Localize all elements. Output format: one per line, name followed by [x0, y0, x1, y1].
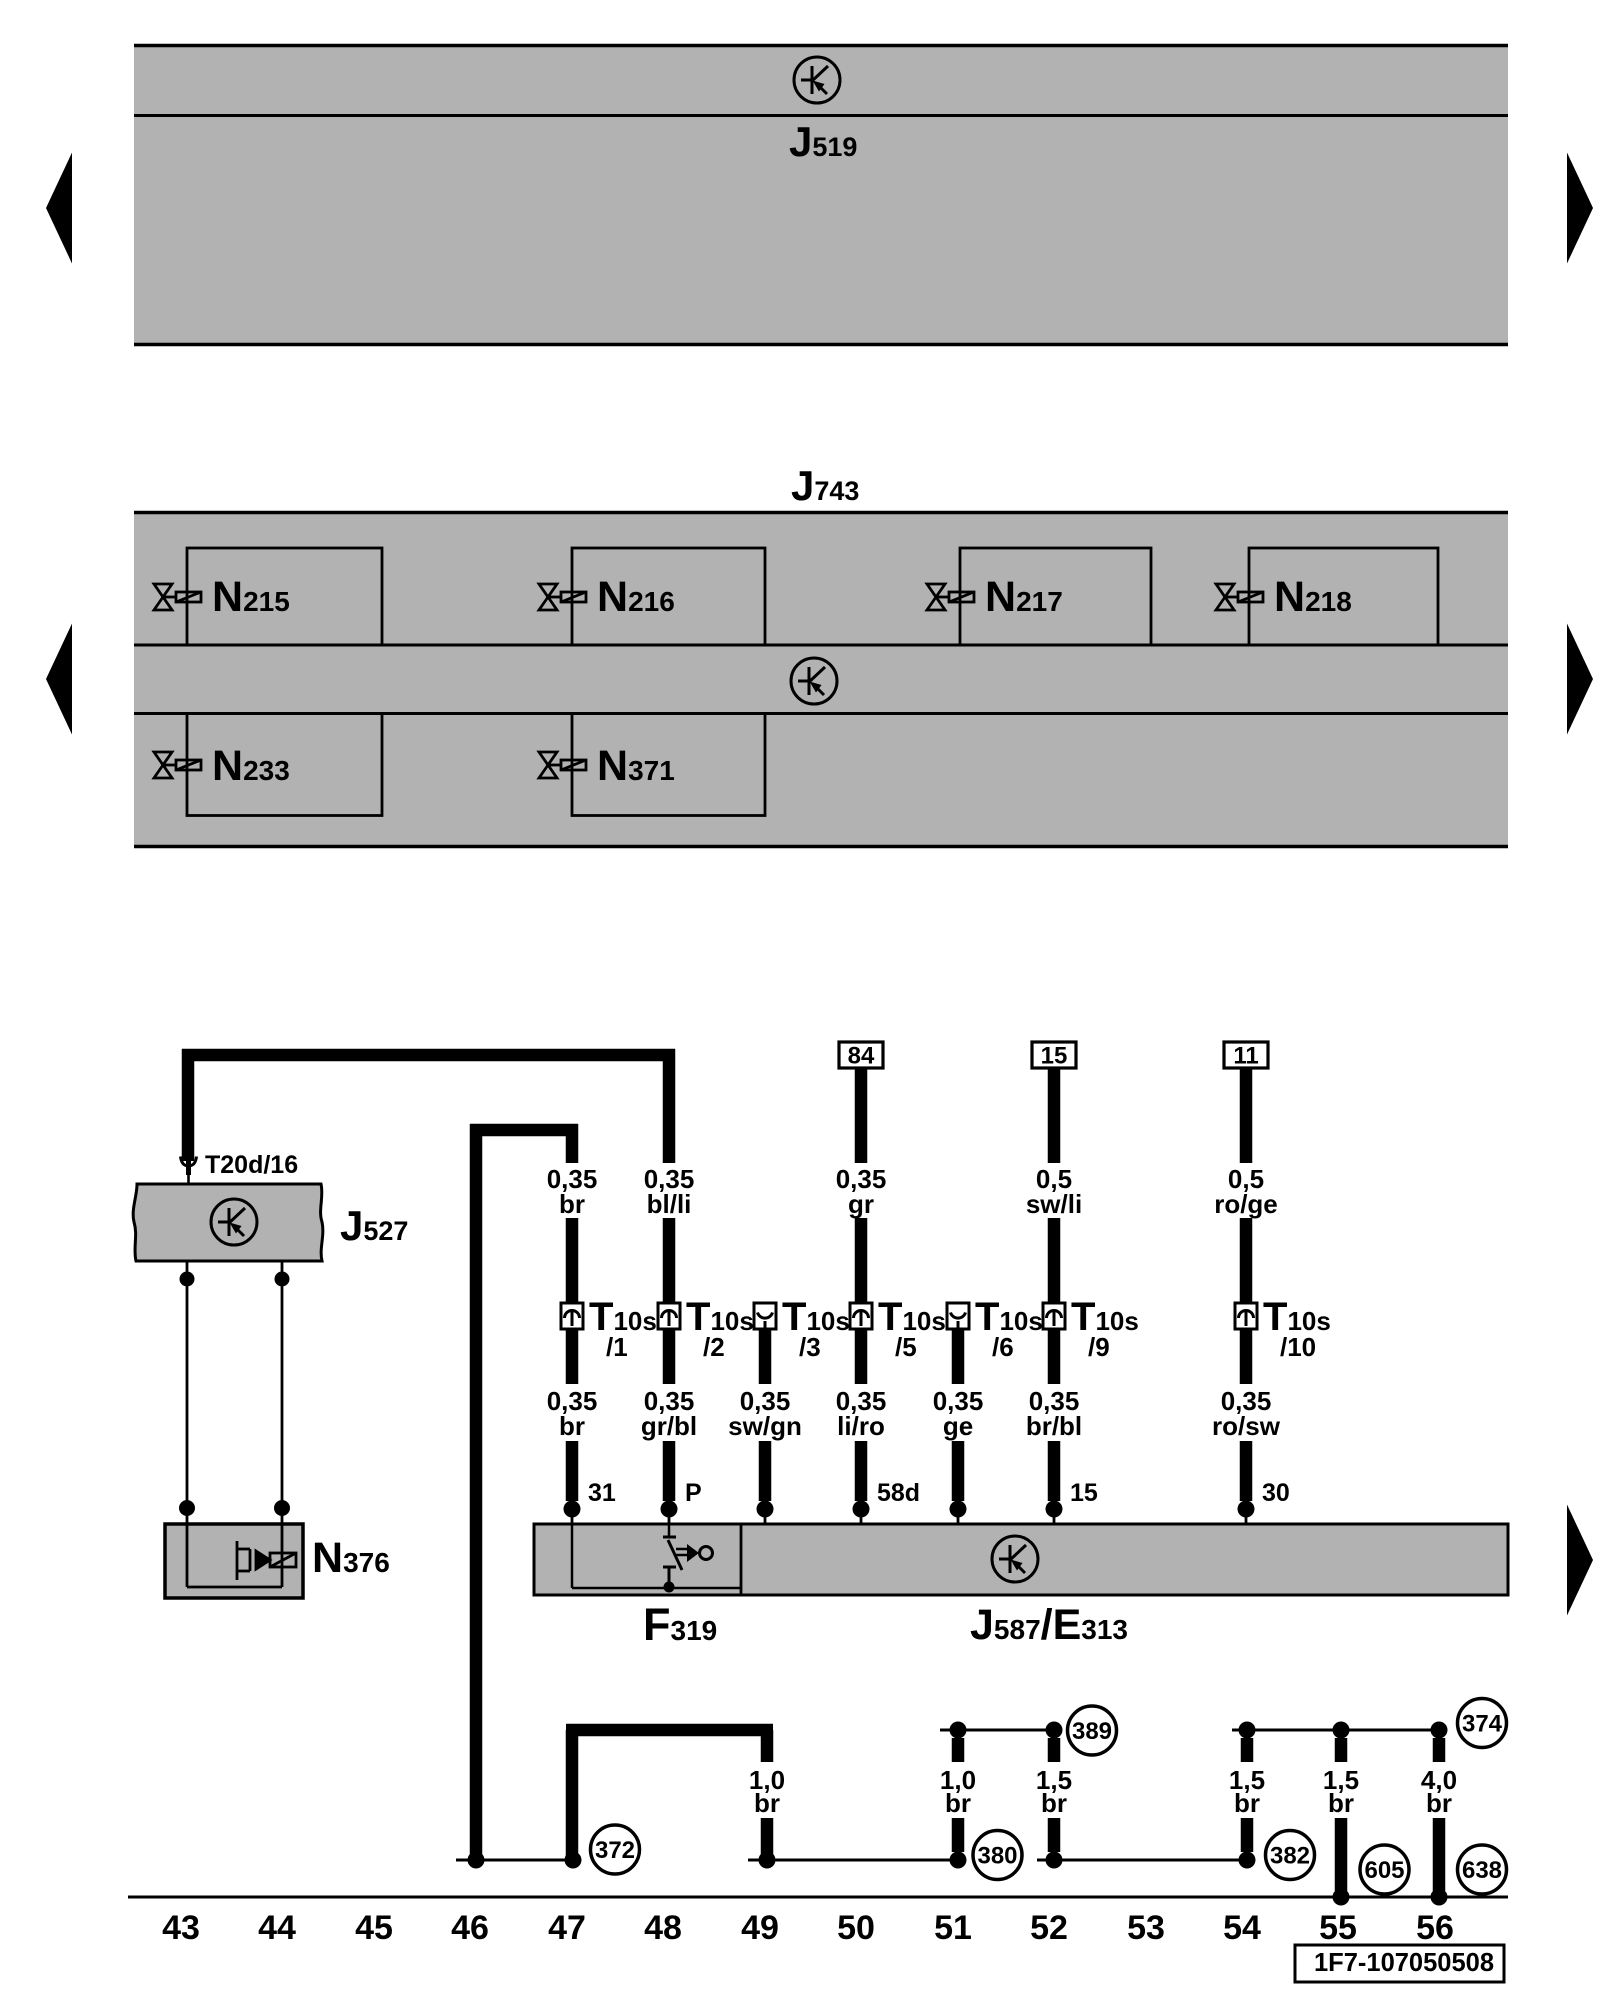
- ground wire track 51 upper segment: [952, 1738, 965, 1762]
- svg-text:gr: gr: [848, 1189, 874, 1219]
- terminal 11 box: [1224, 1042, 1268, 1068]
- terminal dot at x=669: [661, 1501, 678, 1518]
- wire ge below connector T10s/6: [952, 1318, 965, 1384]
- svg-text:/5: /5: [895, 1332, 917, 1362]
- ground wire track 52 upper segment: [1048, 1738, 1061, 1762]
- switch F319 contacts: [663, 1537, 713, 1585]
- connector T20d/16 socket symbol: [181, 1157, 197, 1187]
- terminal pin stub at x=669: [668, 1501, 671, 1524]
- wire br into connector T10s/1: [566, 1218, 579, 1384]
- internal connection symbol in J587/E313: [992, 1536, 1038, 1582]
- terminal dot at x=572: [564, 1501, 581, 1518]
- terminal pin stub at x=1054: [1053, 1501, 1056, 1524]
- svg-text:48: 48: [644, 1909, 682, 1947]
- wire below terminal 84: [855, 1068, 868, 1163]
- wire sw/li into connector T10s/9: [1048, 1218, 1061, 1384]
- wire into J587/E313 at x=1054: [1048, 1441, 1061, 1501]
- junction dot right above N376: [274, 1500, 290, 1516]
- svg-text:F319: F319: [643, 1599, 717, 1650]
- switch F319 lower junction dot: [664, 1582, 675, 1593]
- ground junction dot track 46: [468, 1852, 485, 1869]
- svg-text:84: 84: [848, 1043, 875, 1070]
- svg-text:br: br: [945, 1788, 971, 1818]
- svg-text:50: 50: [837, 1909, 875, 1947]
- svg-text:55: 55: [1319, 1909, 1357, 1947]
- internal connection symbol in J743: [791, 658, 837, 704]
- junction dot left below J527: [180, 1272, 195, 1287]
- solenoid valve N215 box: [187, 548, 382, 645]
- ground bridge wire left leg (track 47): [566, 1730, 579, 1860]
- earth rail dot track 56: [1431, 1889, 1448, 1906]
- wire into J587/E313 at x=958: [952, 1441, 965, 1501]
- svg-text:J743: J743: [791, 462, 859, 509]
- svg-text:sw/gn: sw/gn: [728, 1411, 802, 1441]
- wire bl/li upper segment: [663, 1049, 676, 1163]
- svg-text:605: 605: [1364, 1857, 1404, 1884]
- terminal 15 box: [1032, 1042, 1076, 1068]
- svg-text:/6: /6: [992, 1332, 1014, 1362]
- svg-text:638: 638: [1462, 1857, 1502, 1884]
- internal connection symbol in J527: [211, 1199, 257, 1245]
- svg-text:J527: J527: [340, 1202, 408, 1249]
- ground rail segment D: [940, 1729, 1054, 1732]
- ground junction dot track 56 upper: [1431, 1722, 1448, 1739]
- wire into J587/E313 at x=861: [855, 1441, 868, 1501]
- wire drop to T20d/16: [182, 1049, 195, 1161]
- solenoid valve N218 box: [1249, 548, 1438, 645]
- selector lever sensor J587/E313 box: [534, 1524, 1508, 1595]
- wire bl/li into connector T10s/2: [663, 1218, 676, 1384]
- svg-text:58d: 58d: [877, 1479, 920, 1507]
- terminal dot at x=1054: [1046, 1501, 1063, 1518]
- svg-text:382: 382: [1270, 1843, 1310, 1870]
- connector T10s/3: [754, 1303, 776, 1329]
- ground wire right leg lower (track 49): [761, 1818, 774, 1860]
- svg-text:br/bl: br/bl: [1026, 1411, 1082, 1441]
- ground wire track 54 upper segment: [1241, 1738, 1254, 1762]
- wire into J587/E313 at x=572: [566, 1441, 579, 1501]
- solenoid valve N217 box: [960, 548, 1151, 645]
- ground point 389: [1068, 1706, 1117, 1755]
- svg-text:56: 56: [1416, 1909, 1454, 1947]
- svg-text:53: 53: [1127, 1909, 1165, 1947]
- svg-text:52: 52: [1030, 1909, 1068, 1947]
- terminal pin stub at x=861: [860, 1501, 863, 1524]
- ground wire track 52 lower segment: [1048, 1818, 1061, 1852]
- connector T10s/6: [947, 1303, 969, 1329]
- connector T10s/1: [561, 1303, 583, 1329]
- valve symbol N218: [1216, 584, 1263, 610]
- ground point 372: [591, 1825, 640, 1874]
- svg-text:br: br: [1234, 1788, 1260, 1818]
- svg-text:br: br: [559, 1189, 585, 1219]
- bottom earth rail: [128, 1896, 1508, 1899]
- terminal pin stub at x=958: [957, 1501, 960, 1524]
- right continuation arrow (row 1): [1567, 153, 1593, 264]
- svg-text:30: 30: [1262, 1479, 1290, 1507]
- ground wire track 55 upper segment: [1335, 1738, 1348, 1762]
- svg-text:gr/bl: gr/bl: [641, 1411, 697, 1441]
- ground rail segment E: [1232, 1729, 1439, 1732]
- N376 internal circuit: [187, 1524, 296, 1587]
- left continuation arrow (row 2): [46, 624, 72, 735]
- wire into J587/E313 at x=669: [663, 1441, 676, 1501]
- wire br bridge horizontal run: [470, 1124, 578, 1137]
- svg-text:N376: N376: [312, 1534, 390, 1582]
- ground wire track 56 upper segment: [1433, 1738, 1446, 1762]
- svg-text:li/ro: li/ro: [837, 1411, 885, 1441]
- svg-text:15: 15: [1041, 1043, 1068, 1070]
- valve symbol N216: [539, 584, 586, 610]
- ground rail segment A: [456, 1859, 573, 1862]
- svg-text:374: 374: [1462, 1711, 1503, 1738]
- valve symbol N371: [539, 752, 586, 778]
- terminal 84 box: [839, 1042, 883, 1068]
- terminal dot at x=1246: [1238, 1501, 1255, 1518]
- ground point 374: [1458, 1699, 1507, 1748]
- svg-text:br: br: [1328, 1788, 1354, 1818]
- terminal pin stub at x=765: [764, 1501, 767, 1524]
- solenoid valve N216 box: [572, 548, 765, 645]
- svg-text:49: 49: [741, 1909, 779, 1947]
- junction dot left above N376: [179, 1500, 195, 1516]
- svg-text:br: br: [1426, 1788, 1452, 1818]
- ground junction dot track 54 upper: [1239, 1722, 1256, 1739]
- svg-text:/10: /10: [1280, 1332, 1316, 1362]
- svg-text:31: 31: [588, 1479, 616, 1507]
- ground junction dot track 47: [565, 1852, 582, 1869]
- ground point 605: [1360, 1845, 1409, 1894]
- valve symbol N233: [154, 752, 201, 778]
- svg-text:J587/E313: J587/E313: [970, 1601, 1128, 1649]
- ground junction dot track 52 lower: [1046, 1852, 1063, 1869]
- mechatronic unit J743 box: [134, 511, 1508, 848]
- wire br upper segment: [566, 1124, 579, 1163]
- terminal pin stub at x=572: [571, 1501, 574, 1524]
- terminal dot at x=958: [950, 1501, 967, 1518]
- ground wire track 56 lower segment: [1433, 1818, 1446, 1891]
- svg-text:br: br: [754, 1788, 780, 1818]
- wire gr into connector T10s/5: [855, 1218, 868, 1384]
- wire J527 right pin down to N376: [281, 1261, 284, 1524]
- connector T10s/5: [850, 1303, 872, 1329]
- svg-text:44: 44: [258, 1909, 296, 1947]
- valve symbol N217: [927, 584, 974, 610]
- connector T10s/10: [1235, 1303, 1257, 1329]
- ground rail segment B: [748, 1859, 958, 1862]
- terminal dot at x=861: [853, 1501, 870, 1518]
- svg-text:ro/ge: ro/ge: [1214, 1189, 1278, 1219]
- svg-text:15: 15: [1070, 1479, 1098, 1507]
- svg-text:380: 380: [977, 1843, 1017, 1870]
- earth rail dot track 55: [1333, 1889, 1350, 1906]
- wire into J587/E313 at x=1246: [1240, 1441, 1253, 1501]
- connector T10s/9: [1043, 1303, 1065, 1329]
- svg-text:sw/li: sw/li: [1026, 1189, 1082, 1219]
- right continuation arrow (row 3): [1567, 1505, 1593, 1616]
- ground junction dot track 51 lower: [950, 1852, 967, 1869]
- svg-text:45: 45: [355, 1909, 393, 1947]
- ground junction dot track 52 upper: [1046, 1722, 1063, 1739]
- svg-text:br: br: [559, 1411, 585, 1441]
- ground wire track 54 lower segment: [1241, 1818, 1254, 1852]
- wire into J587/E313 at x=765: [759, 1441, 772, 1501]
- svg-text:389: 389: [1072, 1718, 1112, 1745]
- right continuation arrow (row 2): [1567, 624, 1593, 735]
- svg-text:T20d/16: T20d/16: [205, 1151, 298, 1179]
- solenoid valve N376 box: [165, 1524, 303, 1598]
- svg-text:11: 11: [1233, 1043, 1258, 1070]
- ground junction dot track 54 lower: [1239, 1852, 1256, 1869]
- wire below terminal 11: [1240, 1068, 1253, 1163]
- ground junction dot track 49: [759, 1852, 776, 1869]
- ground junction dot track 51 upper: [950, 1722, 967, 1739]
- junction dot right below J527: [275, 1272, 290, 1287]
- F319 internal wiring: [572, 1524, 741, 1588]
- svg-text:ge: ge: [943, 1411, 973, 1441]
- svg-text:br: br: [1041, 1788, 1067, 1818]
- ground rail segment C: [1037, 1859, 1247, 1862]
- svg-text:43: 43: [162, 1909, 200, 1947]
- steering column electronics J527 box: [133, 1184, 323, 1261]
- terminal pin stub at x=1246: [1245, 1501, 1248, 1524]
- connector T10s/2: [658, 1303, 680, 1329]
- solenoid valve N233 box: [187, 714, 382, 816]
- wire ground track 46, long vertical: [470, 1124, 483, 1860]
- wire below terminal 15: [1048, 1068, 1061, 1163]
- svg-text:47: 47: [548, 1909, 586, 1947]
- diagram number box 1F7-107050508: [1295, 1945, 1504, 1982]
- svg-text:P: P: [685, 1479, 702, 1507]
- wire sw/gn below connector T10s/3: [759, 1318, 772, 1384]
- ground junction dot track 55 upper: [1333, 1722, 1350, 1739]
- ground bridge wire horizontal (47-49): [566, 1724, 773, 1737]
- svg-text:/1: /1: [606, 1332, 628, 1362]
- internal connection symbol in J519: [794, 57, 840, 103]
- ground wire track 51 lower segment: [952, 1818, 965, 1852]
- svg-text:51: 51: [934, 1909, 972, 1947]
- wire ro/ge into connector T10s/10: [1240, 1218, 1253, 1384]
- svg-text:54: 54: [1223, 1909, 1261, 1947]
- ground wire track 55 lower segment: [1335, 1818, 1348, 1891]
- ground wire right leg upper (track 49): [761, 1730, 774, 1762]
- svg-text:372: 372: [595, 1837, 635, 1864]
- valve symbol N215: [154, 584, 201, 610]
- svg-text:46: 46: [451, 1909, 489, 1947]
- svg-text:/2: /2: [703, 1332, 725, 1362]
- terminal dot at x=765: [757, 1501, 774, 1518]
- left continuation arrow (row 1): [46, 153, 72, 264]
- ground point 638: [1458, 1845, 1507, 1894]
- wire J527 left pin down to N376: [186, 1261, 189, 1524]
- F319 compartment divider: [740, 1524, 743, 1595]
- svg-text:/9: /9: [1088, 1332, 1110, 1362]
- svg-text:ro/sw: ro/sw: [1212, 1411, 1281, 1441]
- svg-text:bl/li: bl/li: [647, 1189, 692, 1219]
- wire J519 to T20d/16 and bl/li, horizontal run: [182, 1049, 675, 1062]
- ground point 382: [1266, 1831, 1315, 1880]
- svg-text:1F7-107050508: 1F7-107050508: [1314, 1949, 1494, 1977]
- solenoid valve N371 box: [572, 714, 765, 816]
- control unit J519 box: [134, 45, 1508, 345]
- svg-text:/3: /3: [799, 1332, 821, 1362]
- ground point 380: [973, 1831, 1022, 1880]
